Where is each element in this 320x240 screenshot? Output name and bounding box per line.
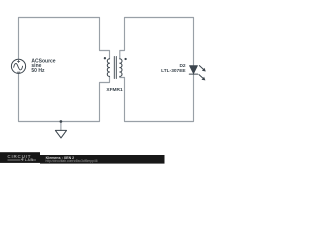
AC source minus sign	[17, 71, 20, 73]
wire secondary top: transformer pin 3 to LED anode	[120, 18, 194, 66]
transformer secondary polarity dot	[124, 58, 126, 60]
transformer core	[114, 57, 116, 79]
watermark logo strikes and LAB	[8, 159, 37, 160]
LED light arrow 2	[199, 75, 203, 78]
AC source sine wave	[14, 63, 23, 69]
svg-text:50 Hz: 50 Hz	[31, 68, 45, 74]
wire primary top: source top to transformer primary pin 1	[19, 18, 110, 60]
watermark logo bar	[0, 152, 40, 163]
wire ground stem	[60, 122, 62, 131]
svg-text:http:∕∕circuitlab.com∕c∕8xc3df: http:∕∕circuitlab.com∕c∕8xc3df5mpp46	[46, 159, 98, 163]
AC source V1 circle	[11, 59, 25, 73]
AC source plus sign	[17, 60, 19, 62]
LED light arrow 1	[199, 66, 203, 70]
node junction at ground	[60, 120, 63, 123]
LED D2 cathode bar	[189, 73, 197, 75]
wire primary bottom: source bottom to transformer primary pin 2	[19, 73, 110, 121]
svg-text:LTL-307EE: LTL-307EE	[161, 68, 186, 74]
transformer XFMR1 secondary winding	[120, 59, 122, 77]
label ACSource	[31, 59, 186, 94]
ground	[55, 130, 66, 138]
svg-text:D2: D2	[179, 63, 185, 69]
watermark text bar	[40, 155, 165, 164]
wire secondary bottom: LED cathode to transformer pin 4	[120, 74, 194, 121]
transformer XFMR1 primary winding	[107, 59, 109, 77]
svg-text:LAB: LAB	[25, 158, 34, 162]
transformer primary polarity dot	[104, 57, 106, 59]
svg-text:XFMR1: XFMR1	[106, 87, 123, 93]
LED D2 triangle	[190, 66, 198, 74]
